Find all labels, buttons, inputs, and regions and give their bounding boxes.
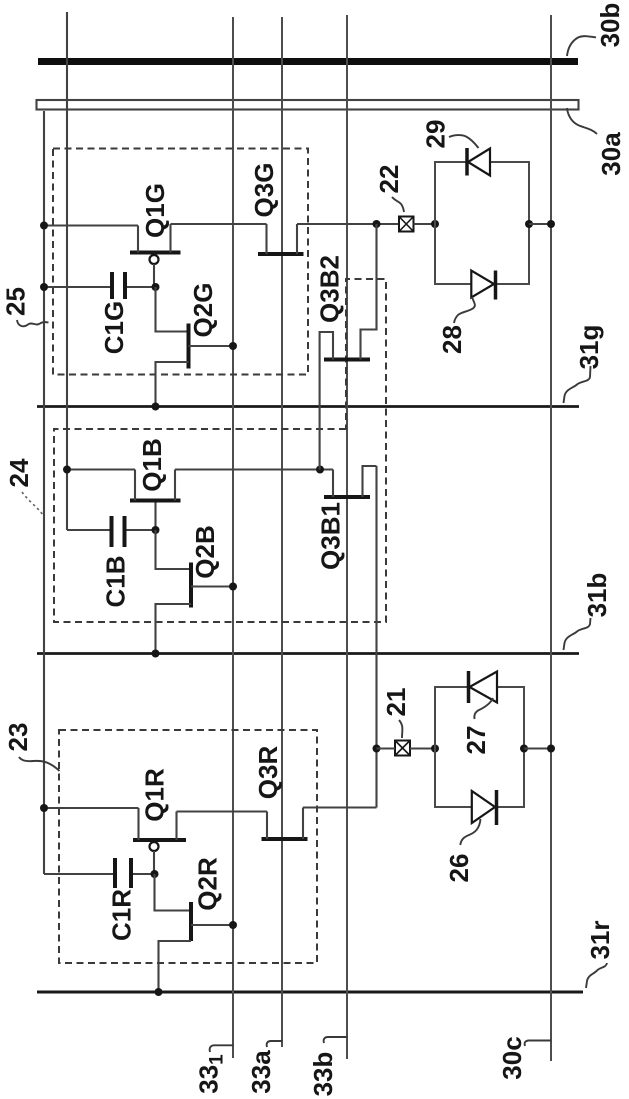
svg-text:C1B: C1B (101, 555, 131, 607)
svg-text:C1R: C1R (107, 889, 137, 941)
wire: Q1R drain to Q3R (177, 810, 268, 812)
wire: C1G right plate to gate node (127, 286, 156, 288)
transistor Q2G (156, 324, 234, 407)
node 22 (crossed-square contact) (399, 217, 414, 232)
bus 30b (thick top line) (38, 58, 578, 65)
wire: storage node down to Q2G (156, 287, 189, 332)
transistor Q1R (133, 808, 186, 874)
diode 26 (472, 790, 497, 825)
wire: Q3B1 drain down to node 21 and Q3R (375, 466, 377, 808)
svg-text:30a: 30a (596, 132, 626, 176)
wire: C1R right plate to R storage node (133, 873, 155, 875)
control line 33b (vertical) (346, 15, 348, 1059)
svg-text:Q3B1: Q3B1 (316, 502, 346, 570)
svg-text:Q3B2: Q3B2 (315, 255, 345, 323)
node: junction long line / Q1B source / C1B (63, 466, 71, 474)
svg-text:29: 29 (421, 120, 451, 149)
dashed box 23 (R pixel) (59, 730, 317, 963)
node: B storage node (152, 526, 160, 534)
svg-text:C1G: C1G (99, 301, 129, 354)
wire: Q3R drain to node 21 riser (303, 806, 377, 808)
wire: diode loop 28/29 frame (435, 162, 529, 284)
svg-text:Q3G: Q3G (249, 163, 279, 218)
scan line 31g (37, 405, 579, 408)
svg-text:Q2G: Q2G (188, 283, 218, 338)
node: junction on supply line at Q1G source (40, 222, 48, 230)
wire: Q1B drain wire to Q3B1 branch (175, 468, 333, 470)
svg-text:28: 28 (437, 325, 467, 354)
node: junction to Q3B2 branch (373, 220, 381, 228)
svg-text:Q1R: Q1R (140, 768, 170, 822)
node: Q2B source on line 31b (152, 650, 160, 658)
wire: C1B left plate wire (67, 529, 110, 531)
wire: node 21 to diode pair (410, 747, 435, 749)
node 21 (crossed-square contact) (395, 741, 410, 756)
node: R storage node (151, 870, 159, 878)
wire: Q1B source wire to long line (67, 468, 135, 470)
svg-text:Q3R: Q3R (253, 746, 283, 800)
wire: diode pair to line 30c (524, 747, 551, 749)
node: Q2R gate on line 33_1 (229, 921, 237, 929)
svg-text:22: 22 (374, 165, 404, 194)
transistor Q3G (258, 224, 304, 254)
wire: diode loop 26/27 frame (435, 687, 524, 807)
svg-text:30c: 30c (497, 1036, 527, 1079)
node: junction on line 30c (22 row) (547, 220, 555, 228)
svg-text:25: 25 (1, 287, 31, 316)
dashed box 25 (G pixel) (53, 149, 308, 375)
wire: Q1G drain to Q3G (171, 223, 267, 225)
node: diode loop left junction (21 row) (431, 745, 439, 753)
svg-text:23: 23 (3, 723, 33, 752)
node: Q2G gate on line 33_1 (229, 342, 237, 350)
transistor Q3B1 (324, 466, 377, 497)
dashed box 24 (B pixel, with arm around Q3B1/Q3B2) (54, 279, 386, 622)
wire: storage node down to Q2B (156, 530, 192, 569)
svg-text:21: 21 (381, 688, 411, 717)
wire: C1B right plate to B storage node (127, 529, 156, 531)
wire: node 22 to diode pair (414, 223, 436, 225)
node: junction Q3R riser / node 21 (373, 745, 381, 753)
svg-text:27: 27 (461, 726, 491, 755)
transistor Q2B (156, 563, 234, 654)
diode 28 (471, 271, 495, 300)
svg-text:26: 26 (444, 854, 474, 883)
transistor Q1G (130, 224, 181, 287)
capacitor C1G (112, 272, 125, 299)
scan line 31b (37, 652, 579, 655)
svg-text:33a: 33a (246, 1050, 276, 1094)
svg-text:24: 24 (4, 458, 34, 487)
diode 29 (467, 148, 490, 176)
wire: diode pair to line 30c (529, 223, 551, 225)
wire: storage node down to Q2R (155, 874, 192, 911)
capacitor C1B (112, 516, 125, 547)
svg-text:Q2R: Q2R (193, 857, 223, 911)
transistor Q1B (130, 470, 181, 531)
scan line 31r (37, 991, 583, 994)
node: diode loop left junction (22 row) (431, 220, 439, 228)
svg-text:30b: 30b (595, 3, 625, 48)
svg-text:Q1B: Q1B (137, 438, 167, 491)
transistor Q2R (159, 902, 234, 992)
diode 27 (469, 671, 498, 703)
svg-text:31b: 31b (582, 573, 612, 618)
wire: C1G left plate to supply line (44, 286, 110, 288)
transistor Q3R (262, 808, 308, 840)
svg-text:Q2B: Q2B (190, 525, 220, 578)
wire: long vertical line through blocks (left) (66, 12, 68, 530)
node: junction Q3B2 source / Q3B1 (316, 466, 324, 474)
node: Q2R source on line 31r (155, 988, 163, 996)
node: G storage node (152, 283, 160, 291)
capacitor C1R (115, 858, 131, 888)
wire: Q3G drain to node 22 (297, 223, 399, 225)
node: junction on supply line at Q1R source (40, 804, 48, 812)
transistor Q3B2 (320, 224, 377, 470)
node: diode loop right junction (21 row) (520, 745, 528, 753)
line 30c (right vertical) (550, 15, 552, 1061)
bus 30a (double-line bus) (37, 100, 579, 110)
node: Q2B gate on line 33_1 (229, 583, 237, 591)
node: diode loop right junction (22 row) (525, 220, 533, 228)
node: Q2G source on line 31g (152, 403, 160, 411)
control line 33a (vertical) (281, 17, 283, 1047)
svg-text:Q1G: Q1G (140, 183, 170, 238)
wire: Q1G source wire (44, 224, 138, 226)
wire: Q1R source wire (44, 807, 139, 809)
svg-text:31g: 31g (574, 325, 604, 370)
node: junction on line 30c (21 row) (547, 745, 555, 753)
control line 33_1 (vertical) (232, 17, 234, 1058)
node: junction supply line / C1G (40, 283, 48, 291)
wire: C1R left plate to supply line (44, 873, 113, 875)
wire: supply line from 30a down left side (43, 111, 45, 874)
svg-text:31r: 31r (585, 920, 615, 959)
wire: riser to node 21 (377, 747, 396, 749)
svg-text:33b: 33b (308, 1052, 338, 1097)
